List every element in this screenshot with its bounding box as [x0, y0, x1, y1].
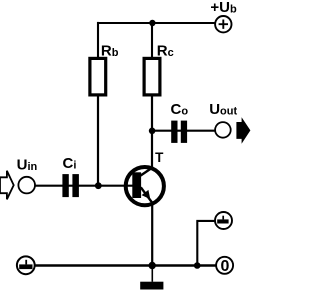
terminal Uout circle [215, 122, 231, 138]
capacitor Co [171, 121, 187, 143]
resistor Rb [90, 58, 106, 95]
wire output row [152, 130, 216, 132]
svg-text:T: T [155, 150, 164, 165]
wire earth branch [196, 221, 214, 266]
arrow Uout output [236, 117, 250, 144]
wire Rc bottom / collector [151, 96, 153, 168]
resistor Rc [144, 58, 160, 95]
terminal earth right [215, 212, 232, 229]
wire input row / base [35, 185, 132, 187]
ground [140, 266, 163, 290]
terminal +Ub [215, 16, 231, 32]
node junction bus / earth branch [194, 262, 201, 269]
wire Rb top drop [97, 22, 99, 58]
node junction top bus / Rc [149, 20, 155, 26]
wire Rb bottom to base node [97, 96, 99, 185]
terminal Uin circle [18, 177, 35, 194]
wire emitter down [151, 204, 153, 266]
terminal 0 [216, 257, 233, 275]
transistor T [126, 167, 164, 205]
wire Rc top drop [151, 22, 153, 58]
terminal earth left [17, 256, 35, 274]
wire bottom bus [35, 264, 216, 267]
svg-text:0: 0 [221, 258, 230, 275]
arrow Uin input [0, 171, 14, 200]
node junction collector / Co [149, 128, 156, 135]
wire top bus [97, 22, 215, 24]
node junction base / Rb [95, 182, 102, 189]
node junction emitter / bus [149, 262, 156, 269]
capacitor Ci [62, 174, 79, 197]
